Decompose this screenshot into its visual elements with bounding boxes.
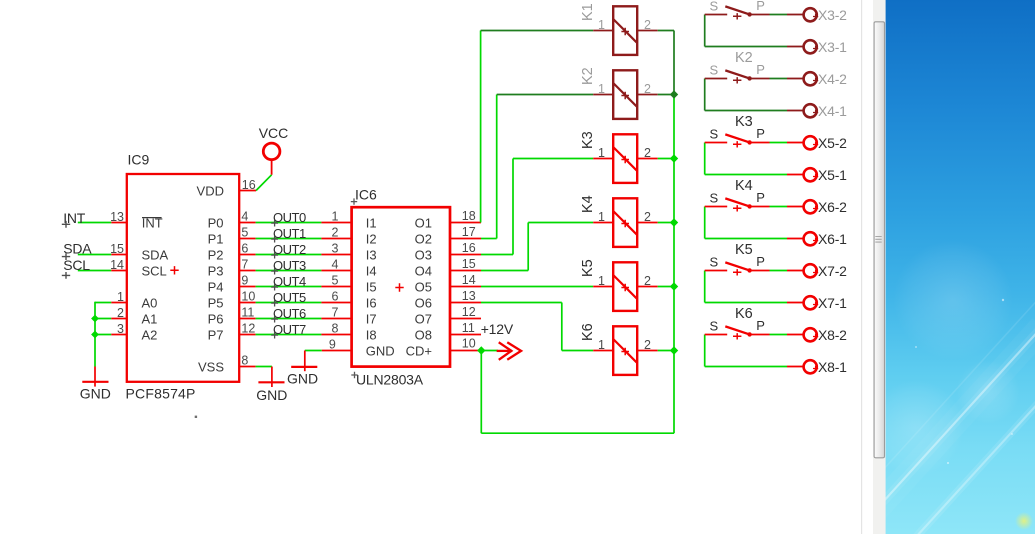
junction A2 [91,331,99,339]
svg-text:O5: O5 [415,280,432,295]
ground GND3 stem [304,351,306,372]
svg-text:S: S [710,0,719,13]
supply VCC stem [271,160,273,175]
wire pad X8-2 stub [787,334,803,336]
wire pin9 to ground [305,350,322,352]
sheet dot [195,416,197,418]
connector X5-2 pad [804,136,817,149]
svg-text:P6: P6 [208,312,224,327]
contact K1 blade [725,6,750,14]
IC6 pin 11 stub [449,334,481,336]
contact K6 blade [725,326,750,334]
svg-text:1: 1 [598,210,605,224]
IC9 pin 4 stub [239,222,256,224]
contact K4 P wire [750,206,769,208]
svg-text:K2: K2 [735,50,753,66]
svg-text:I5: I5 [366,280,377,295]
connector X4-2 pad [804,72,817,85]
svg-text:S: S [710,190,719,205]
IC9 pin 2 stub [111,318,127,320]
svg-text:K3: K3 [735,114,753,130]
wire X6-1 net [705,238,787,240]
wire net SCL [78,270,111,272]
wire contact K3 P net [770,142,788,144]
svg-text:IC6: IC6 [355,187,377,203]
relay K5 pin 2 stub [637,286,658,288]
svg-text:I6: I6 [366,296,377,311]
wire pad X3-2 stub [787,14,803,16]
wire pad X3-1 stub [787,46,803,48]
junction K4 rail [670,218,678,226]
contact K2 origin cross [733,77,741,83]
svg-text:16: 16 [242,178,256,192]
wire pad X4-1 stub [787,110,803,112]
IC9 pin 9 stub [239,286,256,288]
wire +12V rail bottom [481,432,674,434]
svg-text:A1: A1 [142,312,158,327]
svg-text:S: S [710,62,719,77]
ground GND2 stem [271,367,273,388]
svg-text:SCL: SCL [63,257,90,273]
svg-text:P1: P1 [208,232,224,247]
svg-text:X4-1: X4-1 [818,103,847,119]
svg-text:4: 4 [332,258,339,272]
svg-text:S: S [710,318,719,333]
junction A1 [91,315,99,323]
connector X4-1 pad [804,104,817,117]
wire K1 pin2 to rail [658,30,674,32]
wire O1 to K1 vertical [480,31,482,223]
connector X8-2 pad [804,328,817,341]
net OUT6 origin cross [271,316,278,323]
IC6 pin 5 stub [321,286,352,288]
IC6 pin 16 stub [449,254,481,256]
svg-text:O6: O6 [415,296,432,311]
svg-text:K6: K6 [735,306,753,322]
svg-text:K4: K4 [735,178,753,194]
wire K4 pin2 to rail [658,222,674,224]
relay K2 pin 2 stub [637,94,658,96]
wire O4 to K4 horizontal [528,222,593,224]
wire O1 to K1 horizontal [481,30,594,32]
wire pad X7-2 stub [787,270,803,272]
wire +12V rail down [480,351,482,434]
connector X6-1 pad [804,232,817,245]
svg-text:GND: GND [80,385,111,401]
svg-text:X7-1: X7-1 [818,295,847,311]
wire +12V rail right vertical [673,95,675,434]
IC6 pin 18 stub [449,222,481,224]
svg-text:1: 1 [598,338,605,352]
wire O3 to K3 horizontal [513,158,593,160]
relay K6 pin 2 stub [637,350,658,352]
svg-text:GND: GND [287,371,318,387]
IC6 pin 15 stub [449,270,481,272]
contact K3 S wire [705,142,728,144]
wire OUT6 [256,318,322,320]
canvas edge line [861,0,862,534]
wire pad X6-2 stub [787,206,803,208]
IC6 pin 17 stub [449,238,481,240]
svg-text:7: 7 [332,306,339,320]
supply +12V arrow [498,343,521,359]
svg-text:P7: P7 [208,328,224,343]
IC9 pin 12 stub [239,334,256,336]
wire OUT0 [256,222,322,224]
wire OUT7 [256,334,322,336]
svg-text:P2: P2 [208,248,224,263]
svg-text:15: 15 [110,242,124,256]
svg-text:K2: K2 [580,67,596,85]
svg-text:VCC: VCC [259,125,289,141]
wire VSS [256,366,272,368]
label IC6 origin cross [351,198,357,204]
pad X6-1 cross [813,238,818,243]
svg-text:17: 17 [462,225,476,239]
IC IC6 box [352,207,450,366]
junction K6 rail [670,346,678,354]
svg-text:X3-1: X3-1 [818,39,847,55]
svg-text:P5: P5 [208,296,224,311]
wire A2 [95,334,111,336]
relay K3 pin 1 stub [593,158,613,160]
svg-text:I4: I4 [366,264,377,279]
junction K3 rail [670,154,678,162]
wire pad X5-1 stub [787,174,803,176]
IC9 pin 11 stub [239,318,256,320]
wire +12V to arrow [481,350,498,352]
wire contact K5 P net [770,270,788,272]
connector X6-2 pad [804,200,817,213]
relay K4 pin 1 stub [593,222,613,224]
contact K5 origin cross [733,269,741,275]
svg-text:P0: P0 [208,216,224,231]
net OUT7 origin cross [271,332,278,339]
contact K2 S wire [705,78,728,80]
IC6 center cross [395,283,403,291]
svg-text:14: 14 [462,273,476,287]
contact K5 blade [725,262,750,270]
contact group K1 left vertical wire [704,15,706,47]
wire pad X4-2 stub [787,78,803,80]
svg-text:18: 18 [462,209,476,223]
relay K5 pin 1 stub [593,286,613,288]
svg-text:I7: I7 [366,312,377,327]
svg-text:16: 16 [462,241,476,255]
ground GND3 bar [291,366,317,368]
contact group K4 left vertical wire [704,207,706,239]
wire OUT5 [256,302,322,304]
IC6 pin 9 stub [322,350,353,352]
wire K3 pin2 to rail [658,158,674,160]
svg-text:PCF8574P: PCF8574P [126,386,196,402]
svg-text:P: P [756,254,765,269]
net OUT1 origin cross [271,236,278,243]
wire A-bus vertical [94,302,96,367]
svg-text:A0: A0 [142,296,158,311]
svg-text:2: 2 [644,338,651,352]
wire OUT3 [256,270,322,272]
relay coil K6 [613,326,637,375]
svg-text:5: 5 [241,226,248,240]
relay K6 pin 1 stub [593,350,613,352]
svg-text:SDA: SDA [142,248,169,263]
IC9 pin 13 stub [111,222,127,224]
wire pad X6-1 stub [787,238,803,240]
svg-text:S: S [710,254,719,269]
relay K1 pin 2 stub [637,30,658,32]
IC6 pin 13 stub [449,302,481,304]
contact K6 origin cross [733,333,741,339]
pad X5-2 cross [813,142,818,147]
contact K1 S wire [705,14,728,16]
pad X4-1 cross [813,110,818,115]
svg-text:12: 12 [241,322,255,336]
IC6 pin 7 stub [321,318,352,320]
value ULN2803A origin cross [351,372,357,378]
IC6 pin 10 stub [449,350,481,352]
wire X4-1 net [705,110,787,112]
svg-text:X6-1: X6-1 [818,231,847,247]
svg-text:10: 10 [462,337,476,351]
svg-text:K3: K3 [580,131,596,149]
relay K3 pin 2 stub [637,158,658,160]
svg-text:P: P [756,126,765,141]
svg-text:2: 2 [644,274,651,288]
svg-text:S: S [710,126,719,141]
svg-text:ULN2803A: ULN2803A [356,372,424,388]
junction K5 rail [670,282,678,290]
wire O6 horizontal [481,302,562,304]
svg-text:K6: K6 [580,323,596,341]
IC6 pin 14 stub [449,286,481,288]
net SCL end cross [62,272,70,279]
wire net INT [78,222,111,224]
svg-text:I2: I2 [366,232,377,247]
net OUT3 origin cross [271,268,278,275]
svg-text:2: 2 [644,210,651,224]
svg-text:VDD: VDD [197,184,224,199]
svg-text:O8: O8 [415,328,432,343]
ground GND1 bar [82,381,108,383]
wire A0 [95,302,111,304]
contact K1 P wire [750,14,769,16]
wire O4 horizontal [481,270,528,272]
junction K2 rail [670,90,678,98]
IC9 pin 7 stub [239,270,256,272]
relay coil K2 [613,70,637,119]
wire OUT4 [256,286,322,288]
pad X7-2 cross [813,270,818,275]
ground GND1 stem [94,367,96,387]
connector X5-1 pad [804,168,817,181]
svg-text:13: 13 [110,210,124,224]
wire contact K6 P net [770,334,788,336]
svg-text:X3-2: X3-2 [818,7,847,23]
svg-text:X5-1: X5-1 [818,167,847,183]
svg-text:X5-2: X5-2 [818,135,847,151]
contact K5 P wire [750,270,769,272]
net OUT5 origin cross [271,300,278,307]
svg-text:K5: K5 [735,242,753,258]
svg-text:X8-2: X8-2 [818,327,847,343]
wire O4 to K4 vertical [527,223,529,271]
wire pad X7-1 stub [787,302,803,304]
svg-text:15: 15 [462,257,476,271]
relay coil K4 [613,198,637,247]
svg-text:X8-1: X8-1 [818,359,847,375]
svg-text:P: P [756,318,765,333]
svg-text:3: 3 [117,322,124,336]
svg-text:P: P [756,62,765,77]
svg-text:2: 2 [332,226,339,240]
svg-text:CD+: CD+ [406,344,432,359]
contact K4 blade [725,198,750,206]
contact K6 P wire [750,334,769,336]
svg-text:O4: O4 [415,264,432,279]
svg-text:I3: I3 [366,248,377,263]
wire net SDA [78,254,111,256]
svg-text:13: 13 [462,289,476,303]
svg-text:7: 7 [241,258,248,272]
pad X3-2 cross [813,14,818,19]
svg-text:8: 8 [241,354,248,368]
wire pad X8-1 stub [787,366,803,368]
svg-text:X6-2: X6-2 [818,199,847,215]
contact K2 P wire [750,78,769,80]
IC6 pin 2 stub [321,238,352,240]
svg-text:P: P [756,0,765,13]
contact K3 blade [725,134,750,142]
svg-text:+12V: +12V [481,321,514,337]
svg-text:K4: K4 [580,195,596,213]
pad X7-1 cross [813,302,818,307]
relay coil K5 [613,262,637,311]
wire contact K1 P net [770,14,788,16]
svg-text:O3: O3 [415,248,432,263]
wire O6 to K6 vertical [561,303,563,351]
wire X8-1 net [705,366,787,368]
wire O6 to K6 horizontal [562,350,593,352]
wire O2 horizontal [481,238,497,240]
contact group K2 left vertical wire [704,79,706,111]
contact K2 blade [725,70,750,78]
IC9 pin 5 stub [239,238,256,240]
svg-text:1: 1 [598,18,605,32]
wire pad X5-2 stub [787,142,803,144]
svg-text:2: 2 [644,82,651,96]
svg-text:9: 9 [329,337,336,351]
contact K6 S wire [705,334,728,336]
svg-text:P4: P4 [208,280,224,295]
IC9 pin 10 stub [239,302,256,304]
wire O5 to K5 [481,286,593,288]
pad X5-1 cross [813,174,818,179]
svg-text:1: 1 [598,82,605,96]
svg-text:8: 8 [332,322,339,336]
IC9 pin 15 stub [111,254,127,256]
connector X3-2 pad [804,8,817,21]
svg-text:P3: P3 [208,264,224,279]
IC9 pin 14 stub [111,270,127,272]
svg-text:I8: I8 [366,328,377,343]
svg-text:GND: GND [256,387,287,403]
pad X6-2 cross [813,206,818,211]
wire contact K2 P net [770,78,788,80]
IC9 pin 1 stub [111,302,127,304]
relay coil K1 [613,6,637,55]
scrollbar thumb grip [875,237,881,243]
svg-text:3: 3 [332,242,339,256]
wire O3 to K3 vertical [512,159,514,255]
connector X7-2 pad [804,264,817,277]
IC9 pin 16 VDD stub [239,190,257,192]
svg-text:4: 4 [241,210,248,224]
wire O2 to K2 vertical [496,95,498,239]
IC6 pin 3 stub [321,254,352,256]
svg-text:11: 11 [241,306,254,320]
relay coil K3 [613,134,637,183]
IC9 pin 3 stub [111,334,127,336]
IC6 pin 1 stub [321,222,352,224]
contact K5 S wire [705,270,728,272]
svg-text:SCL: SCL [142,264,167,279]
svg-text:1: 1 [332,210,339,224]
relay K4 pin 2 stub [637,222,658,224]
wire K5 pin2 to rail [658,286,674,288]
net SDA end cross [62,253,70,260]
connector X8-1 pad [804,360,817,373]
svg-text:1: 1 [598,274,605,288]
IC6 pin 8 stub [321,334,352,336]
svg-text:P: P [756,190,765,205]
contact K4 origin cross [733,205,741,211]
net OUT2 origin cross [271,252,278,259]
IC6 pin 12 stub [449,318,481,320]
wire K6 pin2 to rail [658,350,674,352]
IC9 pin 6 stub [239,254,256,256]
pad X8-1 cross [813,366,818,371]
svg-text:GND: GND [366,344,395,359]
svg-text:1: 1 [117,290,124,304]
wire +12V rail right vertical dim part [673,31,675,95]
svg-text:11: 11 [462,321,475,335]
relay K1 pin 1 stub [593,30,613,32]
svg-text:6: 6 [241,242,248,256]
contact group K6 left vertical wire [704,335,706,367]
scrollbar thumb [874,22,884,458]
supply VCC ring [263,143,280,160]
wire X5-1 net [705,174,787,176]
svg-text:SDA: SDA [63,241,92,257]
svg-text:2: 2 [644,146,651,160]
net OUT4 origin cross [271,284,278,291]
wire X7-1 net [705,302,787,304]
pad X8-2 cross [813,334,818,339]
svg-text:I1: I1 [366,216,377,231]
scrollbar track [873,0,886,534]
svg-text:1: 1 [598,146,605,160]
svg-text:O2: O2 [415,232,432,247]
svg-text:X4-2: X4-2 [818,71,847,87]
net INT end cross [62,221,70,228]
junction +12V at pin10 [477,346,485,354]
svg-text:6: 6 [332,290,339,304]
contact group K3 left vertical wire [704,143,706,175]
wire K2 pin2 to rail [658,94,674,96]
svg-text:O7: O7 [415,312,432,327]
wire A1 [95,318,111,320]
